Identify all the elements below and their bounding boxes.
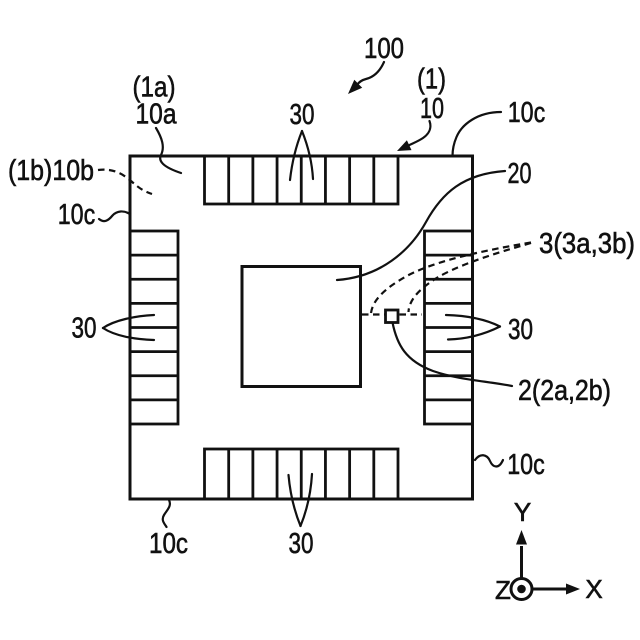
svg-text:Z: Z xyxy=(495,575,511,605)
svg-text:100: 100 xyxy=(364,33,404,65)
svg-text:10c: 10c xyxy=(149,528,188,560)
svg-text:2(2a,2b): 2(2a,2b) xyxy=(518,375,611,407)
svg-text:10c: 10c xyxy=(58,199,96,231)
svg-text:10c: 10c xyxy=(507,449,545,481)
svg-text:30: 30 xyxy=(289,528,314,560)
svg-text:Y: Y xyxy=(514,497,531,527)
svg-text:(1): (1) xyxy=(417,64,446,96)
svg-text:10a: 10a xyxy=(136,99,178,131)
svg-text:30: 30 xyxy=(508,314,533,346)
svg-text:30: 30 xyxy=(290,99,315,131)
svg-text:30: 30 xyxy=(72,313,97,345)
svg-text:20: 20 xyxy=(508,158,532,190)
svg-text:3(3a,3b): 3(3a,3b) xyxy=(539,228,635,260)
svg-text:10c: 10c xyxy=(508,97,546,129)
svg-text:(1b)10b: (1b)10b xyxy=(8,155,94,187)
svg-text:X: X xyxy=(585,574,602,604)
svg-text:10: 10 xyxy=(420,93,444,125)
